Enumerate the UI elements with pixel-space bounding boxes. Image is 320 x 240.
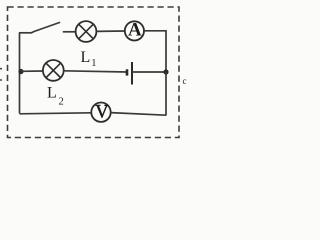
svg-text:2: 2 <box>59 97 64 108</box>
wire: voltmeter to bottom-right corner <box>111 113 166 116</box>
wire: lamp L1 to ammeter <box>97 30 125 32</box>
lamp L1 (circle with X) <box>76 21 97 42</box>
label L1 <box>81 49 97 69</box>
wire: battery to right junction <box>132 71 166 73</box>
ammeter A <box>125 19 144 40</box>
switch S (open lever) <box>32 23 60 33</box>
wire: left vertical <box>19 33 21 114</box>
battery cell (long positive plate) <box>131 62 133 85</box>
wire: right vertical lower segment <box>165 72 167 116</box>
stray mark: lead stub at left image edge <box>0 69 2 80</box>
wire: switch to lamp L1 <box>63 31 75 33</box>
wire: lamp L2 to battery <box>63 71 127 72</box>
svg-text:L: L <box>47 85 57 102</box>
svg-text:A: A <box>128 19 142 40</box>
label L2 <box>47 85 64 108</box>
wire: top-left stub to switch <box>19 32 32 34</box>
svg-text:L: L <box>81 49 91 66</box>
battery cell (short thick negative plate) <box>126 69 129 75</box>
stray mark: small c at right image edge <box>183 76 187 86</box>
voltmeter V <box>91 102 110 122</box>
lamp L2 (circle with X) <box>43 60 64 81</box>
node: left junction dot <box>18 69 23 74</box>
wire: left junction to lamp L2 <box>21 70 43 72</box>
svg-text:1: 1 <box>91 58 96 69</box>
svg-text:V: V <box>95 102 109 122</box>
dashed boundary box <box>8 7 180 138</box>
wire: bottom-left corner to voltmeter <box>20 113 92 114</box>
svg-text:c: c <box>183 76 187 86</box>
wire: ammeter to top-right corner and down <box>144 31 166 72</box>
node: right junction dot <box>163 69 168 74</box>
